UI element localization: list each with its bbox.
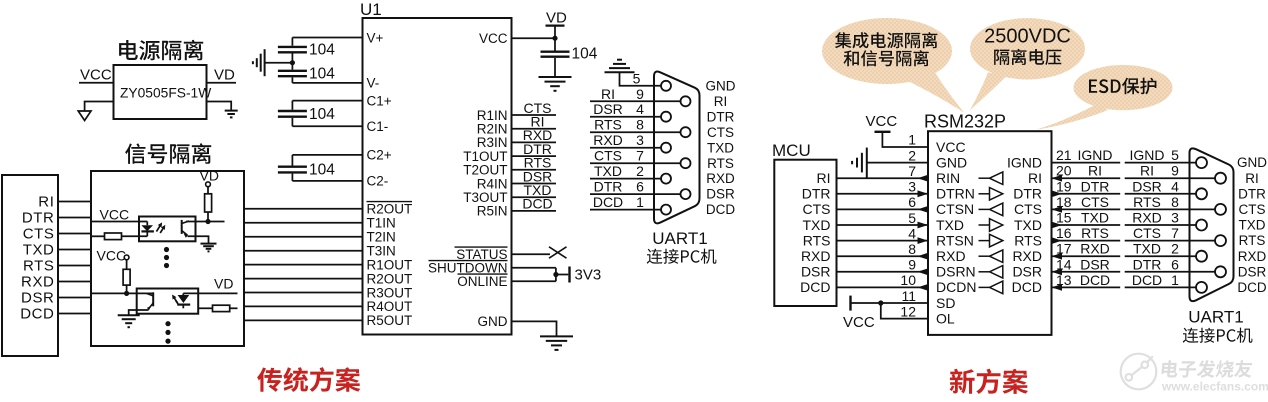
arrowhead on RXD wire (918, 253, 929, 260)
svg-text:1: 1 (908, 132, 916, 148)
svg-text:20: 20 (1056, 163, 1072, 179)
svg-text:CTS: CTS (594, 148, 622, 164)
watermark text 电子发烧友 (1161, 360, 1253, 378)
wire TXD from left header to signal isolation box (58, 249, 91, 251)
svg-text:DTR: DTR (707, 109, 735, 124)
svg-text:RTS: RTS (594, 117, 622, 133)
svg-text:GND: GND (706, 78, 736, 93)
svg-text:RXD: RXD (21, 274, 54, 291)
svg-text:10: 10 (900, 272, 916, 288)
svg-text:RI: RI (38, 194, 54, 211)
signal isolation title 信号隔离 (125, 143, 211, 164)
svg-text:R4OUT: R4OUT (367, 299, 413, 314)
wire to DB9#2 pin 1 (DCD) (1125, 286, 1197, 288)
svg-text:3: 3 (908, 179, 916, 195)
callout bubble 集成电源隔离和信号隔离 (822, 18, 952, 84)
DB9#1 contact circle row 8 (681, 189, 691, 199)
svg-text:6: 6 (1171, 256, 1179, 272)
svg-text:C1-: C1- (367, 119, 389, 134)
wire signal isolation box to U1 R2OUT (244, 278, 363, 280)
DB9#1 contact circle row 6 (681, 158, 691, 168)
DB9#2 contact circle row 6 (1215, 235, 1226, 246)
wire ground to DB9#1 pin 5 (620, 72, 662, 86)
svg-text:6: 6 (636, 179, 644, 195)
wire DCD from left header to signal isolation box (58, 313, 91, 315)
wire to DB9#2 pin 9 (RI) (1125, 177, 1216, 179)
svg-text:RXD: RXD (1012, 248, 1042, 264)
wire U1 DSR stub (512, 183, 557, 185)
svg-text:17: 17 (1056, 241, 1072, 257)
svg-text:RXD: RXD (936, 248, 966, 264)
resistor R2 (opto1 pull-up) (205, 194, 212, 212)
capacitor C4 (104) (278, 165, 307, 167)
capacitor C3 (104) (278, 110, 307, 112)
svg-text:T2IN: T2IN (367, 230, 396, 245)
wire U1 SHUTDOWN stub (512, 267, 556, 269)
wire DSR from left header to signal isolation box (58, 297, 91, 299)
callout bubble 2500VDC 隔离电压 (970, 18, 1085, 79)
buffer symbol for RXD (979, 255, 990, 257)
arrowhead on TXD wire (918, 222, 929, 229)
VCC terminal bar (SD/OL pull) (849, 296, 851, 311)
wire opto U3 LED cathode to resistor R4 (198, 307, 212, 309)
svg-text:104: 104 (309, 162, 335, 179)
svg-text:TXD: TXD (936, 217, 964, 233)
svg-text:19: 19 (1056, 178, 1072, 194)
wire VCC to power module (79, 82, 114, 84)
junction between C1 and C2 (290, 60, 295, 65)
svg-text:VD: VD (546, 10, 567, 27)
svg-text:VD: VD (214, 67, 235, 84)
opto U2 phototransistor (181, 220, 183, 234)
svg-text:DTR: DTR (594, 179, 623, 195)
svg-text:DTRN: DTRN (936, 186, 975, 202)
svg-text:DCD: DCD (1132, 272, 1162, 288)
callout bubble ESD保护 (1074, 65, 1173, 110)
svg-text:104: 104 (309, 66, 335, 83)
svg-text:UART1: UART1 (1188, 308, 1243, 327)
arrowhead on RTS wire (out of chip) (1052, 237, 1063, 244)
wire RSM232P pin 2 to ground (867, 162, 928, 164)
connector label 连接PC机 (#1) (647, 249, 717, 264)
power isolation title 电源隔离 (119, 40, 203, 61)
svg-text:R2OUT: R2OUT (367, 271, 413, 286)
wire capacitor C3 to U1 C1- (291, 118, 293, 126)
svg-text:UART1: UART1 (652, 229, 707, 248)
ground (earth) at U1 GND (540, 335, 573, 337)
svg-text:DCD: DCD (706, 202, 735, 217)
resistor R1 (opto1 input series) (105, 233, 122, 240)
arrowhead on RI wire (into chip) (1052, 175, 1063, 182)
svg-text:R1OUT: R1OUT (367, 257, 413, 272)
svg-text:CTS: CTS (1014, 201, 1042, 217)
svg-text:RXD: RXD (593, 132, 623, 148)
svg-text:DSR: DSR (1238, 264, 1267, 279)
wire VD node to capacitor C5 (554, 38, 556, 50)
wire RSM232P pin 17 (RXD) stub (1052, 255, 1121, 257)
wire U1 RTS stub (512, 169, 557, 171)
DB9#2 contact circle row 5 (1196, 220, 1207, 231)
upside-down ground (earth) at DB9#1 pin5 (605, 71, 635, 73)
DB9#2 contact circle row 9 (1196, 282, 1207, 293)
DB9#2 contact circle row 1 (1196, 157, 1207, 168)
svg-text:DCD: DCD (20, 306, 54, 323)
svg-text:DTR: DTR (1133, 256, 1162, 272)
arrowhead on RIN wire (918, 175, 929, 182)
svg-text:11: 11 (901, 288, 916, 304)
arrowhead on DCDN wire (918, 284, 929, 291)
wire MCU to RSM232P pin 6 (CTSN) (837, 208, 929, 210)
svg-text:GND: GND (478, 314, 508, 329)
svg-text:RTS: RTS (23, 258, 55, 275)
svg-text:DCD: DCD (1012, 279, 1042, 295)
wire VCC rail to optocoupler U2 (left segment) (91, 221, 147, 223)
ground (sideways earth) at RSM232P GND (866, 148, 868, 178)
arrowhead on TXD wire (out of chip) (1052, 222, 1063, 229)
svg-text:CTS: CTS (23, 226, 55, 243)
wire MCU to RSM232P pin 5 (TXD) (837, 224, 929, 226)
wire VD terminal down to node (554, 26, 556, 39)
svg-text:DTR: DTR (802, 186, 831, 202)
buffer symbol for DCDN (979, 286, 990, 288)
wire to DB9#1 pin 3 (RXD) (590, 147, 661, 149)
ground at opto U2 emitter (201, 243, 217, 245)
svg-text:ZY0505FS-1W: ZY0505FS-1W (120, 86, 211, 101)
DB9#2 contact circle row 7 (1196, 251, 1207, 262)
svg-text:IGND: IGND (1130, 147, 1165, 163)
terminal circle VD (opto1) (206, 182, 211, 187)
svg-text:RIN: RIN (936, 170, 960, 186)
svg-text:TXD: TXD (594, 163, 622, 179)
buffer symbol for CTSN (979, 208, 990, 210)
wire RSM232P pin 18 (CTS) stub (1052, 208, 1121, 210)
svg-text:VCC: VCC (80, 67, 112, 84)
wire signal isolation box to U1 R3OUT (244, 292, 363, 294)
svg-text:DSR: DSR (801, 264, 831, 280)
opto U2 light arrows (156, 225, 160, 231)
svg-text:RI: RI (1088, 163, 1102, 179)
svg-text:8: 8 (636, 117, 644, 133)
svg-text:1: 1 (1171, 272, 1179, 288)
DB9 connector UART1 (#1) shell (654, 72, 700, 224)
svg-text:VCC: VCC (479, 31, 508, 46)
wire MCU to RSM232P pin 4 (RTSN) (837, 240, 929, 242)
svg-text:RI: RI (1245, 171, 1259, 186)
junction at opto1 collector rail (205, 219, 210, 224)
wire resistor R3 to collector rail (126, 285, 128, 293)
svg-text:13: 13 (1056, 272, 1072, 288)
svg-text:DTR: DTR (1238, 186, 1266, 201)
svg-text:DSR: DSR (21, 290, 54, 307)
svg-text:14: 14 (1056, 256, 1072, 272)
svg-text:VCC: VCC (866, 113, 898, 130)
junction on SD wire (878, 300, 883, 305)
svg-text:DCDN: DCDN (936, 279, 976, 295)
wire to DB9#1 pin 1 (DCD) (590, 209, 661, 211)
svg-text:TXD: TXD (1239, 218, 1266, 233)
capacitor C2 (104) (278, 70, 307, 72)
svg-text:DTR: DTR (1081, 178, 1110, 194)
DB9#1 contact circle row 4 (681, 127, 691, 137)
caption 新方案 (new solution) (950, 369, 1028, 394)
svg-text:C2-: C2- (367, 174, 389, 189)
svg-text:DTR: DTR (1013, 186, 1042, 202)
svg-text:R3OUT: R3OUT (367, 285, 413, 300)
svg-text:RXD: RXD (1238, 249, 1267, 264)
svg-text:3V3: 3V3 (575, 267, 602, 284)
svg-text:TXD: TXD (1133, 241, 1161, 257)
wire opto U2 emitter to ground (188, 236, 209, 243)
arrowhead on DTRN wire (918, 190, 929, 197)
wire capacitor C5 to ground (554, 58, 556, 77)
optocoupler U2 body (139, 217, 196, 242)
optocoupler U3 body (137, 289, 199, 314)
wire power module right lower pin to ground (207, 102, 232, 111)
wire to DB9#1 pin 4 (DSR) (590, 116, 661, 118)
svg-text:DCD: DCD (1237, 280, 1266, 295)
svg-text:VCC: VCC (936, 139, 966, 155)
ground (earth) below C5 (539, 76, 572, 78)
wire to DB9#2 pin 8 (RTS) (1125, 208, 1216, 210)
wire RSM232P pin 15 (TXD) stub (1052, 224, 1121, 226)
wire to DB9#2 pin 5 (IGND) (1125, 162, 1197, 164)
svg-text:ONLINE: ONLINE (457, 274, 507, 289)
svg-text:RTS: RTS (1081, 225, 1109, 241)
arrowhead on CTSN wire (918, 206, 929, 213)
svg-text:V+: V+ (367, 30, 384, 45)
wire RSM232P pin 14 (DSR) stub (1052, 271, 1121, 273)
svg-text:RTS: RTS (1133, 194, 1161, 210)
capacitor C1 (104) (278, 46, 307, 48)
wire U1 STATUS stub (512, 253, 551, 255)
no-connect cross at STATUS (549, 247, 567, 258)
wire RSM232P pin 21 (IGND) stub (1052, 162, 1121, 164)
wire capacitor C2 to U1 V- (291, 77, 293, 83)
wire MCU to RSM232P pin 8 (RXD) (837, 255, 929, 257)
wire to DB9#1 pin 8 (RTS) (590, 131, 681, 133)
junction at SHUTDOWN/ONLINE tie (553, 272, 558, 277)
svg-text:1: 1 (636, 194, 644, 210)
DB9 connector UART1 (#2) shell (1190, 148, 1234, 301)
svg-text:7: 7 (908, 163, 916, 179)
caption 传统方案 (traditional solution) (257, 367, 360, 392)
svg-text:DCD: DCD (522, 196, 552, 212)
svg-text:21: 21 (1056, 147, 1072, 163)
svg-text:DSR: DSR (706, 187, 735, 202)
wire U1 C2+ to capacitor C4 (292, 154, 362, 156)
DB9#1 contact circle row 3 (661, 112, 671, 122)
svg-text:9: 9 (1171, 163, 1179, 179)
wire resistor R1 to optocoupler U2 (122, 235, 148, 237)
3V3 terminal bar (568, 267, 570, 283)
svg-text:104: 104 (572, 46, 598, 63)
ground at opto U3 emitter (118, 314, 140, 316)
wire MCU to RSM232P pin 9 (DSRN) (837, 271, 929, 273)
wire signal isolation box to U1 R5OUT (244, 319, 363, 321)
svg-text:C1+: C1+ (367, 93, 392, 108)
svg-text:18: 18 (1056, 194, 1072, 210)
wire to DB9#2 pin 6 (DTR) (1125, 271, 1216, 273)
wire U1 ONLINE stub (512, 280, 556, 282)
arrowhead on DCD wire (into chip) (1052, 284, 1063, 291)
svg-text:U1: U1 (360, 0, 382, 19)
svg-text:RI: RI (714, 94, 728, 109)
svg-text:VCC: VCC (100, 207, 130, 223)
wire signal isolation box to U1 T3IN (244, 250, 363, 252)
IC RSM232P body (928, 131, 1052, 335)
connector box (left MCU-side header) (2, 175, 58, 356)
svg-text:RI: RI (817, 170, 831, 186)
wire VCC terminal to resistor R3 (126, 260, 128, 270)
power module ZY0505FS-1W (114, 65, 207, 119)
wire RXD from left header to signal isolation box (58, 281, 91, 283)
MCU body (774, 160, 836, 306)
svg-text:RI: RI (1140, 163, 1154, 179)
wire U1 RI stub (512, 128, 557, 130)
svg-text:DCD: DCD (800, 279, 830, 295)
wire RSM232P pin 13 (DCD) stub (1052, 286, 1121, 288)
resistor R3 (opto2 pull-up) (123, 269, 130, 285)
VCC terminal bar (RSM232P) (875, 131, 891, 133)
svg-text:8: 8 (908, 241, 916, 257)
svg-text:RTS: RTS (1014, 232, 1042, 248)
wire DTR from left header to signal isolation box (58, 217, 91, 219)
buffer symbol for TXD (979, 224, 990, 226)
wire VCC terminal to RSM232P pin 11 (SD) (851, 302, 929, 304)
arrowhead on RXD wire (into chip) (1052, 253, 1063, 260)
svg-text:DSR: DSR (1132, 178, 1162, 194)
wire power module to VD (207, 82, 237, 84)
IC U1 body (RS-232 transceiver) (363, 18, 512, 335)
svg-text:6: 6 (908, 194, 916, 210)
wire U1 DCD stub (512, 210, 557, 212)
svg-text:IGND: IGND (1078, 147, 1113, 163)
wire RSM232P pin 19 (DTR) stub (1052, 193, 1121, 195)
svg-text:12: 12 (900, 303, 916, 319)
svg-text:C2+: C2+ (367, 148, 392, 163)
DB9#1 contact circle row 9 (661, 205, 671, 215)
svg-text:T3IN: T3IN (367, 244, 396, 259)
svg-text:DSR: DSR (1012, 264, 1042, 280)
svg-text:RTS: RTS (1239, 233, 1266, 248)
wire U1 RXD stub (512, 141, 557, 143)
wire MCU to RSM232P pin 10 (DCDN) (837, 286, 929, 288)
svg-text:2500VDC: 2500VDC (984, 26, 1071, 48)
DB9#1 contact circle row 1 (661, 81, 671, 91)
wire signal isolation box to U1 T1IN (244, 222, 363, 224)
wire to DB9#1 pin 2 (TXD) (590, 178, 661, 180)
svg-text:RXD: RXD (801, 248, 831, 264)
opto U3 LED (182, 293, 184, 295)
svg-text:TXD: TXD (23, 242, 55, 259)
svg-text:DSR: DSR (593, 101, 623, 117)
svg-text:DSRN: DSRN (936, 264, 976, 280)
arrowhead on DSR wire (into chip) (1052, 268, 1063, 275)
DB9#1 contact circle row 7 (661, 174, 671, 184)
wire to DB9#1 pin 6 (DTR) (590, 193, 681, 195)
wire MCU to RSM232P pin 3 (DTRN) (837, 193, 929, 195)
svg-text:VD: VD (214, 276, 233, 292)
wire to DB9#1 pin 7 (CTS) (590, 162, 681, 164)
svg-text:4: 4 (908, 225, 916, 241)
wire U1 GND to ground (512, 321, 557, 335)
wire opto1 collector rail (right segment) (186, 221, 225, 223)
svg-text:TXD: TXD (1081, 210, 1109, 226)
wire power module left lower pin to ground (85, 102, 114, 112)
DB9#1 contact circle row 5 (661, 143, 671, 153)
svg-text:R2OUT: R2OUT (367, 202, 413, 217)
svg-text:CTS: CTS (707, 125, 734, 140)
svg-text:CTS: CTS (1081, 194, 1109, 210)
svg-text:3: 3 (1171, 210, 1179, 226)
arrowhead on RTSN wire (918, 237, 929, 244)
connector label 连接PC机 (#2) (1183, 328, 1253, 343)
wire capacitor C4 to U1 C2- (291, 174, 293, 181)
resistor R4 (opto2 output series) (213, 305, 230, 311)
wire U1 DTR stub (512, 155, 557, 157)
wire to DB9#2 pin 4 (DSR) (1125, 193, 1197, 195)
svg-text:CTSN: CTSN (936, 201, 974, 217)
opto U2 LED (146, 222, 148, 226)
svg-text:2: 2 (1171, 241, 1179, 257)
wire junction down to pin 12 (OL) (881, 303, 928, 319)
svg-text:4: 4 (636, 101, 644, 117)
svg-text:IGND: IGND (1007, 154, 1042, 170)
arrowhead on DSRN wire (918, 268, 929, 275)
svg-text:2: 2 (636, 163, 644, 179)
svg-text:T1IN: T1IN (367, 216, 396, 231)
wire to DB9#2 pin 3 (RXD) (1125, 224, 1197, 226)
VD terminal bar (546, 25, 565, 27)
wire opto2 collector rail (right segment) (183, 292, 237, 294)
wire U1 V+ to capacitor C1 (292, 37, 362, 39)
wire RTS from left header to signal isolation box (58, 265, 91, 267)
wire signal isolation box to U1 T2IN (244, 236, 363, 238)
svg-text:R5IN: R5IN (477, 204, 508, 219)
svg-text:RTS: RTS (803, 232, 831, 248)
svg-text:TXD: TXD (707, 140, 734, 155)
ellipsis dots (more channels, lower) (165, 321, 170, 326)
wire signal isolation box to U1 R1OUT (244, 264, 363, 266)
ellipsis dots (more channels, upper) (164, 247, 169, 252)
svg-text:RI: RI (601, 86, 615, 102)
svg-text:15: 15 (1056, 210, 1072, 226)
svg-text:RXD: RXD (1080, 241, 1110, 257)
wire U1 C1+ to capacitor C3 (292, 100, 362, 102)
svg-text:CTS: CTS (1133, 225, 1161, 241)
svg-text:4: 4 (1171, 178, 1179, 194)
watermark logo circle (1121, 354, 1157, 390)
wire RI from left header to signal isolation box (58, 201, 91, 203)
signal isolation box (91, 171, 244, 346)
svg-text:8: 8 (1171, 194, 1179, 210)
svg-text:DTR: DTR (22, 210, 55, 227)
terminal circle VCC (opto2) (124, 255, 129, 260)
wire RSM232P pin 20 (RI) stub (1052, 177, 1121, 179)
DB9#2 contact circle row 4 (1215, 204, 1226, 215)
svg-text:VCC: VCC (843, 314, 875, 331)
svg-text:9: 9 (908, 257, 916, 273)
opto U3 light arrows (174, 297, 178, 303)
svg-text:GND: GND (936, 154, 967, 170)
svg-text:RXD: RXD (1132, 210, 1162, 226)
wire opto U3 emitter to ground (129, 310, 149, 315)
svg-text:VCC: VCC (97, 248, 127, 264)
svg-text:RTS: RTS (707, 156, 734, 171)
DB9#1 contact circle row 2 (681, 96, 691, 106)
wire joining SHUTDOWN and ONLINE (555, 268, 557, 282)
svg-text:TXD: TXD (1014, 217, 1042, 233)
